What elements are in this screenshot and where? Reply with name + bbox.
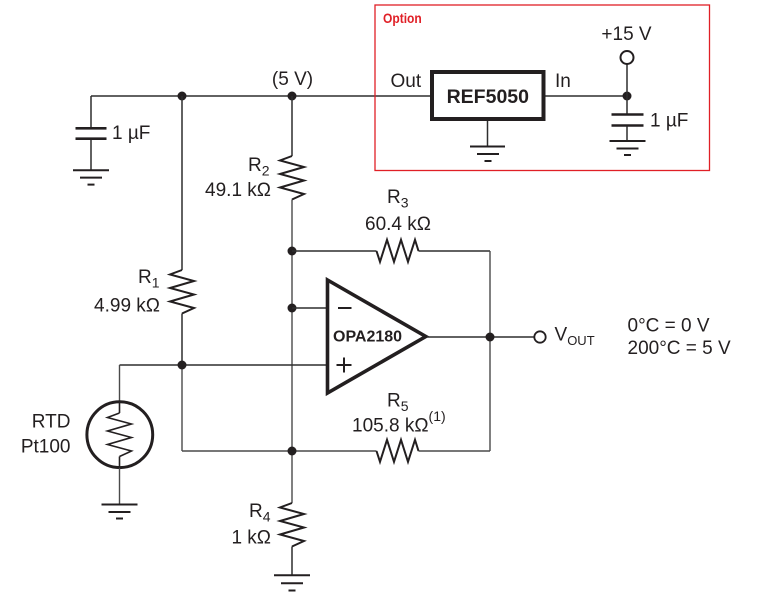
junction: R3 tap <box>288 247 297 256</box>
ground (below C1) <box>73 170 109 184</box>
wire: R2 top lead <box>291 96 293 156</box>
svg-text:In: In <box>555 71 571 92</box>
wire: output <box>427 336 534 338</box>
wire: R3 left lead <box>292 250 377 252</box>
svg-text:R2: R2 <box>248 155 270 179</box>
svg-text:200°C = 5 V: 200°C = 5 V <box>628 338 732 359</box>
ground (below RTD) <box>102 505 138 519</box>
wire: REF5050 ground lead <box>487 121 489 147</box>
voltage reference U2 REF5050 box <box>432 72 544 119</box>
junction: +15V / C2 node <box>623 92 632 101</box>
RTD sensor inner element <box>108 402 132 468</box>
svg-text:OPA2180: OPA2180 <box>333 329 402 346</box>
ground (below R4) <box>274 575 310 590</box>
junction: 5V rail / R2 (5 V node) <box>288 92 297 101</box>
svg-text:RTD: RTD <box>32 412 71 433</box>
resistor R1 <box>170 270 194 314</box>
wire: RTD bottom lead <box>119 468 121 505</box>
wire: In pin to +15V node <box>546 95 628 97</box>
svg-text:Out: Out <box>391 71 422 92</box>
svg-text:105.8 kΩ(1): 105.8 kΩ(1) <box>352 408 446 437</box>
junction: output node <box>486 333 495 342</box>
capacitor C2 bottom lead <box>626 127 628 142</box>
wire: R5 right lead <box>419 450 491 452</box>
wire: 5V supply rail (top horizontal) <box>91 95 430 97</box>
svg-text:R3: R3 <box>387 187 409 211</box>
op-amp U1 non-inverting pin mark <box>337 358 352 373</box>
wire: R1 bottom lead <box>181 314 183 366</box>
svg-text:(5 V): (5 V) <box>272 69 313 90</box>
resistor R5 <box>377 440 419 462</box>
svg-text:0°C = 0 V: 0°C = 0 V <box>628 316 710 337</box>
op-amp U1 OPA2180 <box>328 280 426 393</box>
capacitor C1 <box>76 128 107 138</box>
wire: +15V terminal lead <box>626 64 628 96</box>
wire: R3 right lead <box>419 250 491 252</box>
svg-text:R1: R1 <box>138 267 160 291</box>
wire: feedback vertical <box>489 251 491 451</box>
RTD sensor Pt100 body <box>87 402 153 468</box>
svg-text:1 µF: 1 µF <box>650 110 688 131</box>
wire: +input node down to linearization wire <box>181 365 183 451</box>
wire: non-inverting input <box>120 364 328 366</box>
svg-text:VOUT: VOUT <box>555 325 595 348</box>
terminal +15 V <box>621 51 634 64</box>
capacitor C2 top lead <box>626 96 628 114</box>
terminal VOUT <box>534 331 545 342</box>
wire: RTD top lead <box>119 365 121 402</box>
ground (below C2) <box>610 141 646 155</box>
svg-text:4.99 kΩ: 4.99 kΩ <box>94 296 160 317</box>
svg-text:49.1 kΩ: 49.1 kΩ <box>205 180 271 201</box>
resistor R4 <box>280 503 304 547</box>
capacitor C2 <box>612 115 644 126</box>
ground (below REF5050) <box>470 147 505 162</box>
junction: inverting input tap <box>288 304 297 313</box>
option box (red) <box>375 5 710 171</box>
svg-text:60.4 kΩ: 60.4 kΩ <box>365 214 431 235</box>
capacitor C1 bottom lead wire <box>90 140 92 170</box>
wire: inverting input <box>292 307 327 309</box>
wire: inverting node vertical (R2 bottom to R4 top) <box>291 200 293 504</box>
svg-text:Pt100: Pt100 <box>21 437 71 458</box>
resistor R3 <box>377 240 419 262</box>
svg-text:Option: Option <box>383 10 422 26</box>
svg-text:REF5050: REF5050 <box>447 86 530 108</box>
wire: R4 bottom lead <box>291 547 293 576</box>
junction: R4 tap <box>288 447 297 456</box>
svg-text:R4: R4 <box>249 501 271 525</box>
svg-text:R5: R5 <box>387 391 409 415</box>
wire: R1 top lead <box>181 96 183 270</box>
capacitor C1 top lead wire <box>90 96 92 128</box>
resistor R2 <box>280 156 304 200</box>
op-amp U1 inverting pin mark <box>338 307 352 309</box>
svg-text:1 kΩ: 1 kΩ <box>231 528 271 549</box>
svg-text:1 µF: 1 µF <box>112 123 150 144</box>
junction: +input node <box>178 361 187 370</box>
svg-text:+15 V: +15 V <box>601 24 652 45</box>
junction: 5V rail / R1 <box>178 92 187 101</box>
wire: linearization bottom left lead (R5 left) <box>182 450 377 452</box>
